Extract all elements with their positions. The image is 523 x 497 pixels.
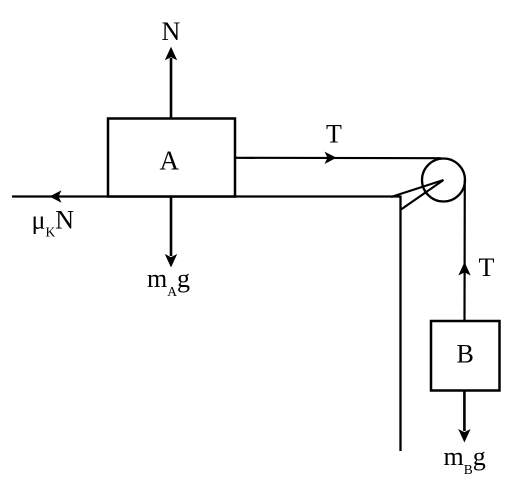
- arrowhead T right: [325, 152, 337, 164]
- wire rope pulley to B: [463, 180, 465, 321]
- arrow mAg (weight of A): [165, 197, 177, 268]
- pulley bracket lower arm: [401, 180, 444, 210]
- arrow mBg (weight of B): [458, 391, 470, 443]
- svg-text:A: A: [160, 146, 180, 176]
- svg-text:N: N: [162, 17, 181, 46]
- pulley bracket upper arm: [391, 180, 444, 197]
- block A: [108, 119, 235, 197]
- arrowhead T up: [458, 262, 470, 276]
- wire rope A to pulley: [235, 157, 441, 160]
- arrow N (normal force): [165, 47, 177, 119]
- wire table edge vertical line: [399, 196, 401, 452]
- wire table surface line: [12, 195, 401, 197]
- arrowhead friction left: [50, 190, 62, 202]
- svg-text:B: B: [457, 340, 474, 369]
- pulley circle: [422, 159, 465, 202]
- svg-text:T: T: [479, 253, 495, 282]
- svg-text:T: T: [326, 120, 342, 149]
- block B: [431, 321, 500, 391]
